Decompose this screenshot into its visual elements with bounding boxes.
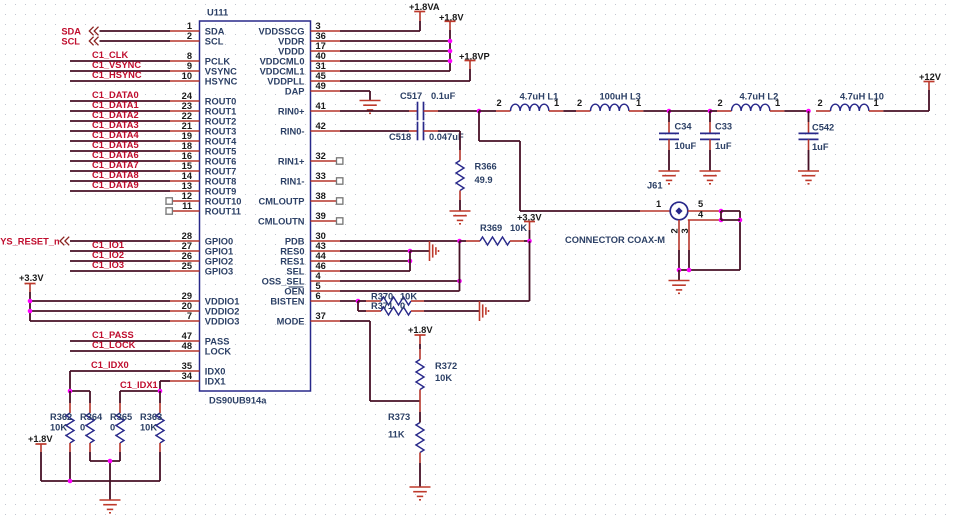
wire +1.8V rail bbox=[41, 452, 160, 481]
net label C1_DATA2 bbox=[92, 110, 139, 120]
pin 19 ROUT4 bbox=[170, 131, 237, 146]
wire C1_IO3 bbox=[70, 270, 170, 272]
pin 4 OSS_SEL bbox=[262, 271, 340, 286]
power +12V label bbox=[919, 72, 942, 82]
wire SDA bbox=[100, 30, 171, 32]
wire L3 to C34 node bbox=[643, 110, 669, 112]
svg-text:28: 28 bbox=[182, 231, 192, 241]
ground bbox=[410, 487, 431, 500]
svg-text:ROUT9: ROUT9 bbox=[205, 186, 237, 196]
IC U111 refdes bbox=[207, 8, 228, 18]
pin 26 GPIO2 bbox=[170, 251, 233, 266]
svg-text:C1_DATA5: C1_DATA5 bbox=[92, 140, 139, 150]
svg-text:RIN1+: RIN1+ bbox=[278, 156, 305, 166]
svg-text:38: 38 bbox=[316, 191, 326, 201]
svg-text:1uF: 1uF bbox=[715, 141, 732, 151]
ground bbox=[659, 171, 680, 184]
svg-text:R370: R370 bbox=[371, 292, 393, 302]
svg-text:20: 20 bbox=[182, 301, 192, 311]
capacitor C518 bbox=[389, 122, 464, 142]
svg-text:3: 3 bbox=[680, 228, 690, 233]
svg-text:16: 16 bbox=[182, 151, 192, 161]
wire C1_DATA6 bbox=[70, 160, 170, 162]
svg-text:10K: 10K bbox=[50, 423, 67, 433]
svg-text:ROUT1: ROUT1 bbox=[205, 106, 237, 116]
pin 11 ROUT11 bbox=[166, 201, 241, 216]
svg-text:GPIO0: GPIO0 bbox=[205, 236, 233, 246]
wire C1_IO2 bbox=[70, 260, 170, 262]
net label SYS_RESET_n bbox=[0, 236, 60, 246]
svg-text:C1_DATA8: C1_DATA8 bbox=[92, 170, 139, 180]
svg-text:1: 1 bbox=[656, 199, 661, 209]
svg-text:5: 5 bbox=[316, 281, 321, 291]
pin 8 PCLK bbox=[170, 51, 230, 66]
svg-text:40: 40 bbox=[316, 51, 326, 61]
svg-text:ROUT11: ROUT11 bbox=[205, 206, 241, 216]
wire PDB bbox=[340, 240, 460, 242]
off-page connector SYS_RESET_n bbox=[60, 237, 69, 246]
svg-text:10K: 10K bbox=[140, 423, 157, 433]
pin 21 ROUT3 bbox=[170, 121, 236, 136]
wire BISTEN to R371 bbox=[358, 301, 366, 311]
svg-text:R371: R371 bbox=[371, 301, 393, 311]
svg-text:27: 27 bbox=[182, 241, 192, 251]
junction node RIN0 bbox=[477, 109, 482, 114]
svg-text:PASS: PASS bbox=[205, 336, 230, 346]
connector J61 refdes bbox=[647, 181, 663, 191]
wire VDDIO2 bbox=[30, 310, 170, 312]
wire VDDIO3 bbox=[30, 320, 170, 322]
svg-text:C1_DATA7: C1_DATA7 bbox=[92, 160, 139, 170]
pin 14 ROUT8 bbox=[170, 171, 236, 186]
wire C1_DATA4 bbox=[70, 140, 170, 142]
svg-text:VDDR: VDDR bbox=[278, 36, 305, 46]
wire C518 to R366 bbox=[424, 131, 461, 150]
wire DAP bbox=[340, 91, 370, 101]
svg-text:22: 22 bbox=[182, 111, 192, 121]
pin 18 ROUT5 bbox=[170, 141, 236, 156]
svg-text:11K: 11K bbox=[388, 430, 405, 440]
svg-text:MODE: MODE bbox=[277, 316, 305, 326]
svg-text:31: 31 bbox=[316, 61, 326, 71]
junction bbox=[356, 299, 361, 304]
wire C1_PASS bbox=[70, 340, 170, 342]
svg-text:GPIO2: GPIO2 bbox=[205, 256, 233, 266]
junction bbox=[719, 218, 724, 223]
net label SDA bbox=[61, 26, 81, 36]
svg-text:C1_IDX1: C1_IDX1 bbox=[120, 380, 158, 390]
svg-text:0.1uF: 0.1uF bbox=[431, 91, 456, 101]
wire PDB tie bbox=[459, 241, 461, 291]
svg-text:C1_HSYNC: C1_HSYNC bbox=[92, 70, 142, 80]
net label C1_DATA0 bbox=[92, 90, 139, 100]
junction bbox=[158, 389, 163, 394]
pin 22 ROUT2 bbox=[170, 111, 236, 126]
svg-text:+1.8VA: +1.8VA bbox=[409, 2, 440, 12]
pin 15 ROUT7 bbox=[170, 161, 236, 176]
wire C517 to node bbox=[424, 110, 480, 112]
svg-text:ROUT10: ROUT10 bbox=[205, 196, 242, 206]
svg-text:10K: 10K bbox=[435, 373, 452, 383]
pin 17 VDDD bbox=[278, 41, 340, 56]
svg-text:C542: C542 bbox=[812, 123, 834, 133]
svg-text:43: 43 bbox=[316, 241, 326, 251]
svg-text:R369: R369 bbox=[480, 223, 502, 233]
svg-text:SCL: SCL bbox=[205, 36, 224, 46]
svg-text:1uF: 1uF bbox=[812, 142, 829, 152]
capacitor C542 bbox=[799, 111, 835, 171]
svg-text:10K: 10K bbox=[400, 292, 417, 302]
wire C1_DATA9 bbox=[70, 190, 170, 192]
junction bbox=[457, 239, 462, 244]
svg-text:15: 15 bbox=[182, 161, 192, 171]
svg-text:7: 7 bbox=[187, 311, 192, 321]
svg-text:2: 2 bbox=[818, 98, 823, 108]
wire node to L1 bbox=[479, 110, 496, 112]
resistor R362 bbox=[50, 391, 74, 481]
svg-text:VDDCML0: VDDCML0 bbox=[260, 56, 305, 66]
svg-text:29: 29 bbox=[182, 291, 192, 301]
pin 4 J61 bbox=[688, 210, 721, 221]
svg-text:ROUT0: ROUT0 bbox=[205, 96, 237, 106]
wire VDDPLL bbox=[340, 69, 470, 81]
junction bbox=[108, 459, 113, 464]
svg-text:10K: 10K bbox=[510, 223, 527, 233]
pin 49 DAP bbox=[285, 81, 340, 96]
svg-text:4.7uH L10: 4.7uH L10 bbox=[840, 92, 884, 102]
wire C1_DATA7 bbox=[70, 170, 170, 172]
svg-text:C1_DATA1: C1_DATA1 bbox=[92, 100, 139, 110]
svg-text:U111: U111 bbox=[207, 8, 228, 18]
inductor L10 bbox=[816, 92, 884, 112]
off-page connector SDA bbox=[89, 27, 98, 36]
pin 23 ROUT1 bbox=[170, 101, 236, 116]
svg-text:4: 4 bbox=[316, 271, 322, 281]
pin 41 RIN0+ bbox=[278, 101, 340, 116]
svg-text:ROUT8: ROUT8 bbox=[205, 176, 237, 186]
junction bbox=[687, 268, 692, 273]
resistor R373 bbox=[388, 401, 424, 463]
junction bbox=[677, 268, 682, 273]
svg-text:C1_LOCK: C1_LOCK bbox=[92, 340, 136, 350]
junction bbox=[28, 309, 33, 314]
wire C1_VSYNC bbox=[70, 70, 170, 72]
svg-text:2: 2 bbox=[187, 31, 192, 41]
svg-text:49.9: 49.9 bbox=[475, 175, 493, 185]
IC U111 part name DS90UB914a bbox=[209, 396, 267, 406]
wire pin4 to loop bbox=[721, 219, 740, 221]
svg-text:47: 47 bbox=[182, 331, 192, 341]
wire VDDIO1 bbox=[30, 300, 170, 302]
svg-text:ROUT3: ROUT3 bbox=[205, 126, 237, 136]
wire C1_DATA2 bbox=[70, 120, 170, 122]
svg-text:HSYNC: HSYNC bbox=[205, 76, 238, 86]
wire R373 to ground bbox=[419, 463, 421, 487]
wire RIN0+ to C517 bbox=[340, 110, 418, 112]
svg-text:DAP: DAP bbox=[285, 86, 305, 96]
svg-text:C34: C34 bbox=[675, 122, 693, 132]
resistor R366 bbox=[456, 150, 497, 200]
wire RES0 to ground bbox=[410, 250, 430, 252]
svg-text:2: 2 bbox=[670, 228, 680, 233]
power +1.8V symbol bbox=[36, 444, 47, 452]
pin 20 VDDIO2 bbox=[170, 301, 239, 316]
pin 7 VDDIO3 bbox=[170, 311, 239, 326]
svg-text:+3.3V: +3.3V bbox=[19, 273, 44, 283]
svg-text:CONNECTOR COAX-M: CONNECTOR COAX-M bbox=[565, 235, 665, 245]
svg-text:18: 18 bbox=[182, 141, 192, 151]
net label C1_DATA1 bbox=[92, 100, 139, 110]
power +1.8V symbol bbox=[445, 21, 456, 30]
svg-text:ROUT6: ROUT6 bbox=[205, 156, 237, 166]
capacitor C34 bbox=[659, 111, 697, 171]
power +1.8V label bbox=[408, 325, 433, 335]
wire C1_CLK bbox=[70, 60, 170, 62]
wire VDDCML0 bbox=[340, 60, 450, 62]
svg-text:IDX1: IDX1 bbox=[205, 376, 226, 386]
svg-text:49: 49 bbox=[316, 81, 326, 91]
svg-text:34: 34 bbox=[182, 371, 193, 381]
pin 34 IDX1 bbox=[170, 371, 225, 386]
junction bbox=[68, 479, 73, 484]
power +3.3V label bbox=[517, 213, 542, 223]
pin 1 SDA bbox=[170, 21, 225, 36]
svg-text:41: 41 bbox=[316, 101, 326, 111]
pin 5 OEN bbox=[284, 281, 340, 296]
pin 35 IDX0 bbox=[170, 361, 225, 376]
svg-text:C33: C33 bbox=[715, 122, 732, 132]
ground bbox=[798, 171, 819, 184]
svg-text:SDA: SDA bbox=[205, 26, 225, 36]
wire C1_HSYNC bbox=[70, 80, 170, 82]
junction bbox=[448, 39, 453, 44]
net label C1_DATA4 bbox=[92, 130, 139, 140]
svg-text:C1_DATA2: C1_DATA2 bbox=[92, 110, 139, 120]
svg-text:100uH L3: 100uH L3 bbox=[600, 92, 641, 102]
net label C1_HSYNC bbox=[92, 70, 142, 80]
pin 31 VDDCML1 bbox=[260, 61, 340, 76]
pin 40 VDDCML0 bbox=[260, 51, 340, 66]
pin 47 PASS bbox=[170, 331, 229, 346]
wire node to connector bbox=[479, 111, 670, 211]
svg-text:2: 2 bbox=[718, 98, 723, 108]
svg-text:3: 3 bbox=[316, 21, 321, 31]
power +1.8V label bbox=[28, 434, 53, 444]
svg-text:1: 1 bbox=[187, 21, 192, 31]
svg-text:CMLOUTN: CMLOUTN bbox=[258, 216, 305, 226]
junction bbox=[448, 59, 453, 64]
power +1.8V label bbox=[439, 13, 464, 23]
svg-text:C1_CLK: C1_CLK bbox=[92, 50, 128, 60]
pin 42 RIN0- bbox=[280, 121, 340, 136]
wire L10 to +12V bbox=[883, 82, 929, 111]
pin 38 CMLOUTP bbox=[259, 191, 343, 206]
wire VDDSSCG to +1.8VA bbox=[340, 12, 420, 31]
power +3.3V label bbox=[19, 273, 44, 283]
wire C34 to C33 node bbox=[669, 110, 710, 112]
wire +3.3V to VDDIO bbox=[29, 292, 31, 321]
power +1.8VA label bbox=[409, 2, 440, 12]
svg-text:23: 23 bbox=[182, 101, 192, 111]
svg-text:C1_IO1: C1_IO1 bbox=[92, 240, 124, 250]
wire C1_DATA8 bbox=[70, 180, 170, 182]
svg-text:VDDIO1: VDDIO1 bbox=[205, 296, 240, 306]
svg-text:VDDIO3: VDDIO3 bbox=[205, 316, 240, 326]
power +3.3V symbol bbox=[524, 222, 535, 231]
svg-text:PDB: PDB bbox=[285, 236, 305, 246]
svg-text:C1_IO3: C1_IO3 bbox=[92, 260, 124, 270]
wire node IDX0 rail bbox=[70, 390, 90, 392]
net label C1_IDX0 bbox=[91, 360, 129, 370]
wire +3.3V down bbox=[529, 230, 531, 241]
wire shield bbox=[679, 250, 740, 270]
junction bbox=[806, 109, 811, 114]
svg-text:C1_DATA6: C1_DATA6 bbox=[92, 150, 139, 160]
svg-text:GPIO3: GPIO3 bbox=[205, 266, 233, 276]
pin 12 ROUT10 bbox=[166, 191, 241, 206]
pin 6 BISTEN bbox=[270, 291, 340, 306]
capacitor C517 bbox=[400, 91, 456, 120]
net label C1_VSYNC bbox=[92, 60, 141, 70]
svg-text:R372: R372 bbox=[435, 361, 457, 371]
svg-text:R366: R366 bbox=[475, 162, 497, 172]
svg-text:PCLK: PCLK bbox=[205, 56, 231, 66]
svg-text:SDA: SDA bbox=[61, 26, 81, 36]
svg-text:14: 14 bbox=[182, 171, 193, 181]
svg-text:SCL: SCL bbox=[61, 36, 80, 46]
off-page connector SCL bbox=[89, 37, 98, 46]
svg-text:21: 21 bbox=[182, 121, 192, 131]
junction bbox=[68, 389, 73, 394]
wire R366 to ground bbox=[459, 200, 461, 211]
svg-text:26: 26 bbox=[182, 251, 192, 261]
svg-text:35: 35 bbox=[182, 361, 192, 371]
resistor R364 bbox=[80, 391, 103, 461]
svg-text:C518: C518 bbox=[389, 132, 411, 142]
svg-text:SYS_RESET_n: SYS_RESET_n bbox=[0, 236, 60, 246]
svg-text:DS90UB914a: DS90UB914a bbox=[209, 396, 267, 406]
svg-text:C1_DATA3: C1_DATA3 bbox=[92, 120, 139, 130]
wire node IDX1 rail bbox=[120, 390, 160, 392]
svg-text:RIN1-: RIN1- bbox=[280, 176, 304, 186]
svg-text:RIN0+: RIN0+ bbox=[278, 106, 305, 116]
svg-text:C1_DATA9: C1_DATA9 bbox=[92, 180, 139, 190]
svg-text:30: 30 bbox=[316, 231, 326, 241]
net label C1_DATA8 bbox=[92, 170, 139, 180]
wire VDDCML1 bbox=[340, 70, 450, 72]
wire L2 to C542 node bbox=[784, 110, 808, 112]
pin 39 CMLOUTN bbox=[258, 211, 343, 226]
svg-text:C1_DATA4: C1_DATA4 bbox=[92, 130, 139, 140]
power +1.8V symbol bbox=[415, 335, 426, 344]
ground bbox=[100, 500, 121, 513]
resistor R363 bbox=[140, 391, 164, 481]
junction bbox=[448, 49, 453, 54]
wire C1_IO1 bbox=[70, 250, 170, 252]
pin 2 J61 bbox=[670, 220, 680, 250]
svg-text:VDDCML1: VDDCML1 bbox=[260, 66, 305, 76]
junction bbox=[708, 109, 713, 114]
svg-text:44: 44 bbox=[316, 251, 327, 261]
wire C1_DATA0 bbox=[70, 100, 170, 102]
wire R371 to ground bbox=[424, 310, 480, 312]
wire pin5-pin4 tie bbox=[720, 211, 722, 220]
junction bbox=[738, 218, 743, 223]
pin 32 RIN1+ bbox=[278, 151, 343, 166]
svg-text:4.7uH L2: 4.7uH L2 bbox=[740, 92, 779, 102]
svg-text:+1.8V: +1.8V bbox=[408, 325, 433, 335]
wire SCL bbox=[100, 40, 171, 42]
inductor L1 bbox=[496, 92, 563, 112]
pin 48 LOCK bbox=[170, 341, 231, 356]
wire shield to ground bbox=[678, 270, 680, 281]
wire C1_DATA3 bbox=[70, 130, 170, 132]
inductor L2 bbox=[717, 92, 784, 112]
svg-text:5: 5 bbox=[698, 199, 703, 209]
inductor L3 bbox=[576, 92, 643, 112]
pin 9 VSYNC bbox=[170, 61, 237, 76]
net label C1_DATA5 bbox=[92, 140, 139, 150]
svg-text:VDDPLL: VDDPLL bbox=[267, 76, 305, 86]
wire OSS_SEL bbox=[340, 280, 460, 282]
wire C33 to L2 bbox=[710, 110, 717, 112]
svg-text:C1_IDX0: C1_IDX0 bbox=[91, 360, 129, 370]
net label C1_CLK bbox=[92, 50, 128, 60]
svg-text:IDX0: IDX0 bbox=[205, 366, 226, 376]
svg-text:R365: R365 bbox=[110, 412, 132, 422]
svg-text:C1_IO2: C1_IO2 bbox=[92, 250, 124, 260]
capacitor C33 bbox=[700, 111, 732, 171]
svg-text:0.047uF: 0.047uF bbox=[429, 132, 464, 142]
svg-text:4: 4 bbox=[698, 210, 704, 220]
power +12V symbol bbox=[924, 81, 935, 83]
svg-text:37: 37 bbox=[316, 311, 326, 321]
wire BISTEN bbox=[340, 300, 358, 302]
svg-text:36: 36 bbox=[316, 31, 326, 41]
svg-text:39: 39 bbox=[316, 211, 326, 221]
svg-text:9: 9 bbox=[187, 61, 192, 71]
svg-text:RES0: RES0 bbox=[280, 246, 304, 256]
junction bbox=[457, 279, 462, 284]
wire RES0 bbox=[340, 250, 410, 252]
svg-text:+12V: +12V bbox=[919, 72, 942, 82]
wire C1_IDX1 bbox=[160, 381, 170, 391]
svg-text:R364: R364 bbox=[80, 412, 103, 422]
wire VDDR bbox=[340, 40, 450, 42]
pin 25 GPIO3 bbox=[170, 261, 233, 276]
net label C1_IO1 bbox=[92, 240, 124, 250]
junction bbox=[28, 299, 33, 304]
svg-text:0: 0 bbox=[400, 301, 405, 311]
wire L1 to L3 bbox=[563, 110, 576, 112]
wire C1_DATA1 bbox=[70, 110, 170, 112]
net label C1_PASS bbox=[92, 330, 134, 340]
svg-text:6: 6 bbox=[316, 291, 321, 301]
resistor R372 bbox=[416, 344, 457, 401]
pin 44 RES1 bbox=[280, 251, 340, 266]
net label C1_DATA7 bbox=[92, 160, 139, 170]
svg-text:RIN0-: RIN0- bbox=[280, 126, 304, 136]
svg-text:10uF: 10uF bbox=[675, 141, 697, 151]
svg-text:J61: J61 bbox=[647, 181, 663, 191]
net label SCL bbox=[61, 36, 80, 46]
net label C1_DATA3 bbox=[92, 120, 139, 130]
pin 5 J61 bbox=[688, 199, 721, 211]
pin 36 VDDR bbox=[278, 31, 340, 46]
ground bbox=[360, 101, 381, 114]
wire C1_IDX0 bbox=[70, 371, 170, 391]
wire pin5 loop bbox=[721, 211, 740, 270]
